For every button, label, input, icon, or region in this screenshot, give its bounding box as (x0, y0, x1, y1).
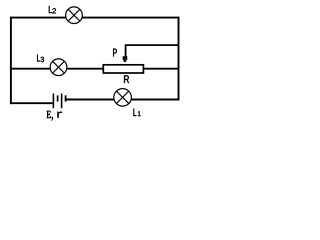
battery short plate 1 (57, 95, 59, 101)
label E, r (47, 111, 51, 118)
resistor R (rheostat box) (103, 65, 143, 73)
lamp L2 (66, 7, 83, 24)
wire top horizontal (10, 17, 179, 19)
label P (113, 49, 117, 57)
label R (124, 75, 129, 83)
lamp L1 (114, 89, 132, 107)
wire bottom left (battery branch) (10, 102, 53, 104)
label E comma (51, 117, 53, 121)
label r (57, 112, 62, 118)
wire right vertical (178, 17, 180, 101)
slider arrow P (123, 56, 128, 60)
battery long plate 2 (61, 94, 63, 109)
wire middle horizontal (10, 68, 179, 70)
wire potentiometer tap (126, 45, 179, 57)
label L1 (134, 109, 141, 116)
label L2 (49, 6, 56, 13)
label L3 (37, 55, 44, 63)
wire bottom right (L1 branch) (66, 99, 179, 101)
lamp L3 (50, 59, 67, 76)
wire left vertical (10, 17, 12, 105)
battery short plate 2 (65, 95, 67, 101)
battery cell E,r : long plate 1 (52, 94, 54, 109)
